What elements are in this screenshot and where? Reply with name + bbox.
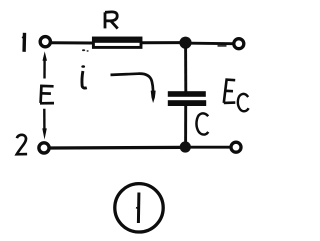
capacitor C bottom plate: [168, 100, 206, 106]
terminal node 1: [40, 37, 50, 47]
ink speck: [82, 49, 85, 51]
label i: [81, 65, 87, 88]
label R: [105, 12, 118, 29]
wire capacitor to bottom junction: [184, 106, 187, 147]
resistor inner ink band: [94, 39, 140, 43]
figure number 1: [137, 193, 141, 224]
E arrow lower (pointing down): [42, 109, 47, 140]
figure number circle: [115, 184, 163, 232]
wire resistor to junction: [141, 41, 181, 44]
resistor R body: [93, 38, 141, 47]
junction dot (top): [179, 37, 191, 49]
label 2 (bottom-left terminal number): [17, 135, 27, 155]
current arrow (curved): [111, 74, 156, 103]
label C (capacitor): [196, 113, 208, 134]
wire terminal1 to resistor: [52, 41, 93, 44]
terminal node 2: [39, 143, 49, 153]
wire junction to right terminal: [191, 42, 233, 45]
wire bottom junction to right terminal: [191, 146, 231, 149]
wire terminal2 to bottom junction: [51, 146, 182, 150]
terminal node (bottom right): [231, 142, 241, 152]
label E (left source voltage): [40, 86, 54, 103]
junction dot (bottom): [180, 141, 191, 152]
ink speck: [87, 50, 89, 51]
ink dash under wire: [218, 45, 227, 47]
E arrow upper (pointing up): [43, 51, 48, 78]
wire junction down to capacitor: [184, 47, 187, 92]
label Ec: [224, 80, 249, 112]
capacitor C top plate: [168, 91, 206, 97]
terminal node (top right): [234, 39, 244, 49]
label 1 (top-left terminal number): [22, 33, 24, 52]
